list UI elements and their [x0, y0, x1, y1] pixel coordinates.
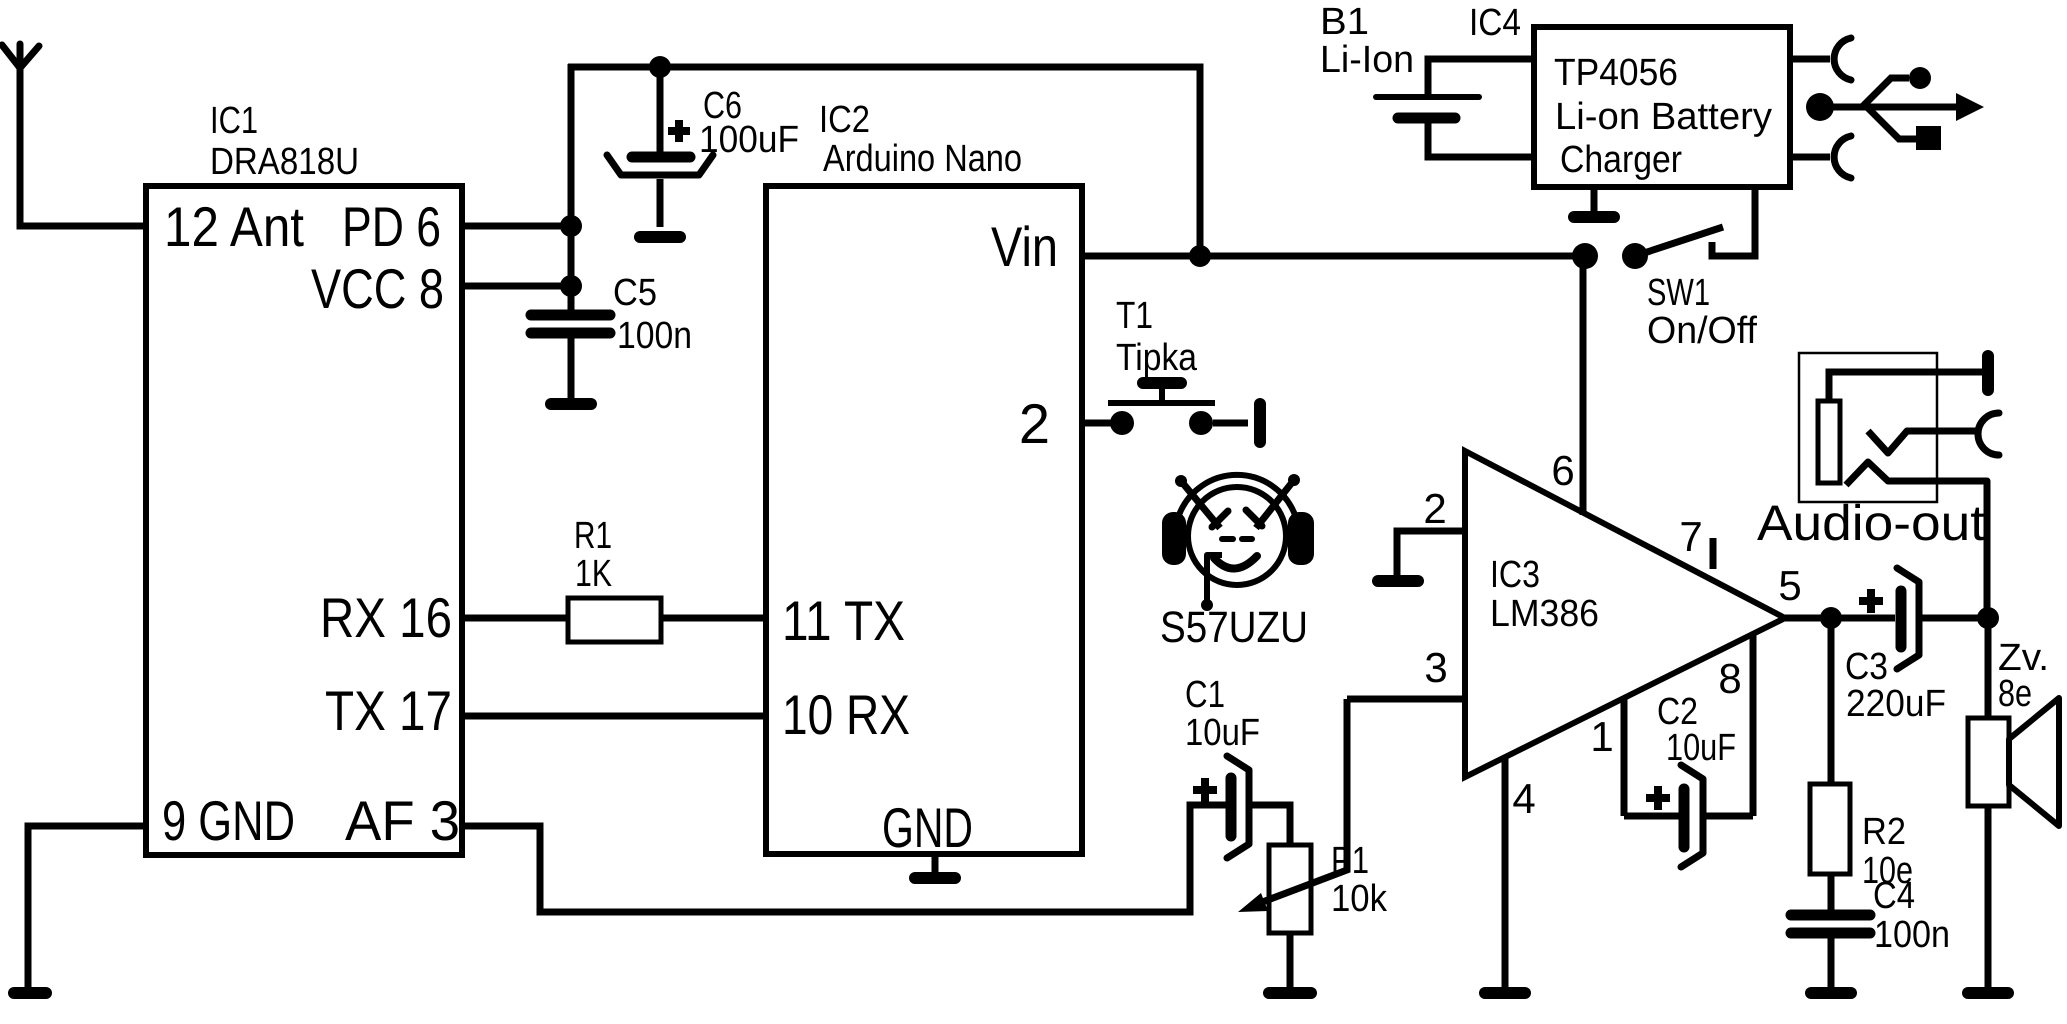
- wire C6 bottom lead: [657, 179, 664, 227]
- svg-text:R1: R1: [574, 515, 612, 557]
- svg-text:100uF: 100uF: [699, 119, 799, 161]
- capacitor C2: [1681, 765, 1703, 867]
- wire pin1 to C2: [1624, 813, 1680, 820]
- wire R2 to C4: [1828, 874, 1835, 911]
- pin 8 stub: [1750, 634, 1757, 816]
- S57UZU logo face: [1162, 474, 1314, 611]
- svg-text:100n: 100n: [1874, 914, 1950, 956]
- C2 polarity plus sign: [1646, 786, 1670, 810]
- pin 6 wire: [1580, 256, 1587, 515]
- wire C6 top lead: [657, 67, 664, 153]
- wire antenna stem to IC1 pin 12: [20, 65, 146, 226]
- svg-text:IC2: IC2: [819, 99, 870, 141]
- svg-text:10 RX: 10 RX: [782, 683, 910, 746]
- audio jack J1 outline box: [1799, 353, 1937, 502]
- battery B1: [1376, 97, 1479, 118]
- wire C3 to speaker node: [1922, 615, 1988, 622]
- wire speaker bottom lead: [1985, 806, 1992, 988]
- svg-text:Li-on Battery: Li-on Battery: [1555, 96, 1772, 138]
- svg-text:P1: P1: [1331, 840, 1369, 882]
- svg-text:Vin: Vin: [991, 215, 1058, 278]
- wire B1 plus to IC4: [1428, 59, 1537, 94]
- antenna: [2, 44, 39, 68]
- wire IC4 lower right pin: [1790, 154, 1830, 161]
- svg-text:100n: 100n: [617, 315, 692, 357]
- pin 7 stub: [1710, 538, 1717, 569]
- svg-text:2: 2: [1019, 392, 1050, 455]
- svg-text:GND: GND: [882, 796, 973, 859]
- wire top rail to corner: [568, 67, 1200, 256]
- ground pin4: [1485, 987, 1525, 999]
- ground TP4056: [1574, 211, 1614, 223]
- output wire pin5: [1785, 615, 1895, 622]
- pin 4 wire: [1502, 757, 1509, 988]
- USB symbol: [1806, 67, 1984, 150]
- audio jack plug body: [1818, 401, 1840, 483]
- svg-text:4: 4: [1512, 775, 1535, 822]
- connector socket arc lower: [1834, 136, 1851, 178]
- pushbutton T1 actuator bridge: [1108, 383, 1215, 403]
- wire C4 bottom lead: [1828, 938, 1835, 988]
- svg-text:DRA818U: DRA818U: [210, 141, 359, 183]
- wire C5 bottom lead: [568, 338, 575, 399]
- svg-text:220uF: 220uF: [1846, 683, 1946, 725]
- wire PD6 to rail: [462, 223, 571, 230]
- ground pin2: [1378, 575, 1418, 587]
- wire IC4 upper right pin: [1790, 56, 1830, 63]
- capacitor C5: [531, 315, 610, 333]
- wire AF3 to C1: [462, 805, 1228, 912]
- wire 9GND to ground: [28, 826, 146, 988]
- svg-text:IC4: IC4: [1469, 2, 1521, 44]
- pin 2 wire: [1397, 531, 1465, 576]
- svg-text:8: 8: [1718, 655, 1741, 702]
- capacitor C6: [607, 155, 713, 175]
- svg-text:11 TX: 11 TX: [782, 589, 905, 652]
- resistor R1: [568, 598, 661, 642]
- wire T1 right terminal: [1213, 420, 1248, 427]
- node junction PD6: [560, 215, 582, 237]
- svg-text:R2: R2: [1862, 811, 1906, 853]
- potentiometer P1 body: [1269, 845, 1311, 933]
- ground C6: [640, 231, 680, 243]
- svg-text:VCC 8: VCC 8: [311, 257, 444, 320]
- svg-text:C3: C3: [1845, 646, 1888, 688]
- svg-text:AF 3: AF 3: [345, 789, 460, 852]
- svg-text:T1: T1: [1116, 295, 1153, 337]
- pin 1 stub: [1621, 699, 1628, 816]
- svg-text:Li-Ion: Li-Ion: [1320, 39, 1414, 81]
- speaker Zv1: [1968, 698, 2059, 826]
- T1 terminal end bar: [1254, 404, 1266, 442]
- svg-text:PD 6: PD 6: [342, 195, 441, 258]
- svg-text:1K: 1K: [575, 553, 612, 595]
- node junction VCC8: [560, 275, 582, 297]
- C3 polarity plus sign: [1859, 589, 1883, 613]
- svg-text:12 Ant: 12 Ant: [164, 195, 304, 258]
- svg-text:1: 1: [1590, 713, 1613, 760]
- wire pin2 to button: [1082, 420, 1116, 427]
- svg-text:TP4056: TP4056: [1554, 52, 1678, 94]
- svg-text:C5: C5: [613, 272, 657, 314]
- wire SW1 throw contact to IC4: [1712, 187, 1755, 256]
- ground P1: [1269, 987, 1311, 999]
- connector socket arc upper: [1834, 38, 1851, 80]
- wire speaker node to speaker: [1985, 618, 1992, 718]
- svg-text:10uF: 10uF: [1185, 712, 1260, 754]
- svg-text:9 GND: 9 GND: [162, 789, 295, 852]
- wire jack tip contact: [1829, 372, 1983, 401]
- wire vertical rail x571 top to C5: [568, 64, 575, 312]
- svg-text:IC3: IC3: [1490, 554, 1540, 596]
- svg-text:6: 6: [1551, 447, 1574, 494]
- switch SW1 pole and lever: [1622, 227, 1723, 269]
- wire VCC8 to rail: [462, 283, 571, 290]
- P1 wiper arrow wire from LM386 pin 3: [1238, 699, 1347, 912]
- svg-text:IC1: IC1: [210, 100, 258, 142]
- svg-text:5: 5: [1778, 562, 1801, 609]
- ground speaker: [1968, 987, 2008, 999]
- node speaker junction: [1977, 607, 1999, 629]
- node junction top rail / C6: [649, 56, 671, 78]
- svg-text:10k: 10k: [1331, 878, 1388, 920]
- svg-text:LM386: LM386: [1490, 593, 1599, 635]
- svg-text:7: 7: [1679, 513, 1702, 560]
- ground 9GND: [14, 987, 46, 999]
- svg-text:S57UZU: S57UZU: [1160, 603, 1308, 652]
- svg-text:SW1: SW1: [1647, 272, 1710, 314]
- node junction switch feed: [1572, 243, 1598, 269]
- TP4056 ground stub: [1591, 187, 1598, 212]
- jack switch contact zigzag: [1868, 431, 1977, 453]
- ground IC2: [915, 872, 955, 884]
- wire Vin rail to switch: [1082, 253, 1585, 260]
- wire TX17 to IC2 10RX: [462, 713, 766, 720]
- jack socket arc: [1978, 413, 1999, 455]
- node output junction: [1820, 607, 1842, 629]
- svg-text:On/Off: On/Off: [1647, 310, 1757, 352]
- svg-text:Tipka: Tipka: [1116, 337, 1198, 379]
- svg-text:TX 17: TX 17: [325, 679, 452, 742]
- svg-text:10uF: 10uF: [1666, 727, 1736, 769]
- svg-text:Charger: Charger: [1560, 139, 1682, 181]
- ground C4: [1811, 987, 1851, 999]
- IC1 DRA818U box: [146, 186, 462, 855]
- capacitor C3: [1897, 568, 1919, 669]
- svg-text:2: 2: [1423, 485, 1446, 532]
- svg-text:C1: C1: [1185, 674, 1225, 716]
- C6 polarity plus sign: [668, 120, 690, 142]
- svg-text:Arduino Nano: Arduino Nano: [823, 138, 1022, 180]
- ground C5: [551, 398, 591, 410]
- capacitor C1: [1227, 756, 1249, 858]
- pushbutton T1 contacts: [1110, 411, 1213, 435]
- IC4 TP4056 box: [1534, 27, 1790, 187]
- wire B1 minus to IC4: [1428, 122, 1537, 157]
- C1 polarity plus sign: [1193, 778, 1217, 802]
- pin 3 wire: [1347, 696, 1465, 703]
- resistor R2: [1810, 784, 1850, 874]
- svg-text:Audio-out: Audio-out: [1757, 495, 1985, 551]
- jack tip terminal bar: [1982, 356, 1994, 390]
- wire C1 to P1: [1252, 805, 1290, 845]
- svg-text:3: 3: [1424, 644, 1447, 691]
- wire C2 to pin8: [1706, 813, 1753, 820]
- wire P1 bottom lead: [1287, 933, 1294, 988]
- svg-text:C4: C4: [1873, 875, 1915, 917]
- wire output node to R2: [1828, 618, 1835, 784]
- node junction Vin/top rail: [1189, 245, 1211, 267]
- IC2 GND stub: [932, 854, 939, 873]
- wire RX16 to R1: [462, 615, 568, 622]
- IC2 Arduino Nano box: [766, 186, 1082, 854]
- svg-text:8e: 8e: [1998, 673, 2032, 715]
- svg-text:RX 16: RX 16: [320, 586, 452, 649]
- svg-text:B1: B1: [1320, 1, 1369, 43]
- capacitor C4: [1791, 915, 1870, 933]
- op-amp IC3 LM386 triangle: [1465, 451, 1785, 777]
- wire R1 to IC2 11TX: [661, 615, 766, 622]
- wire jack sleeve contact to speaker node: [1846, 462, 1987, 610]
